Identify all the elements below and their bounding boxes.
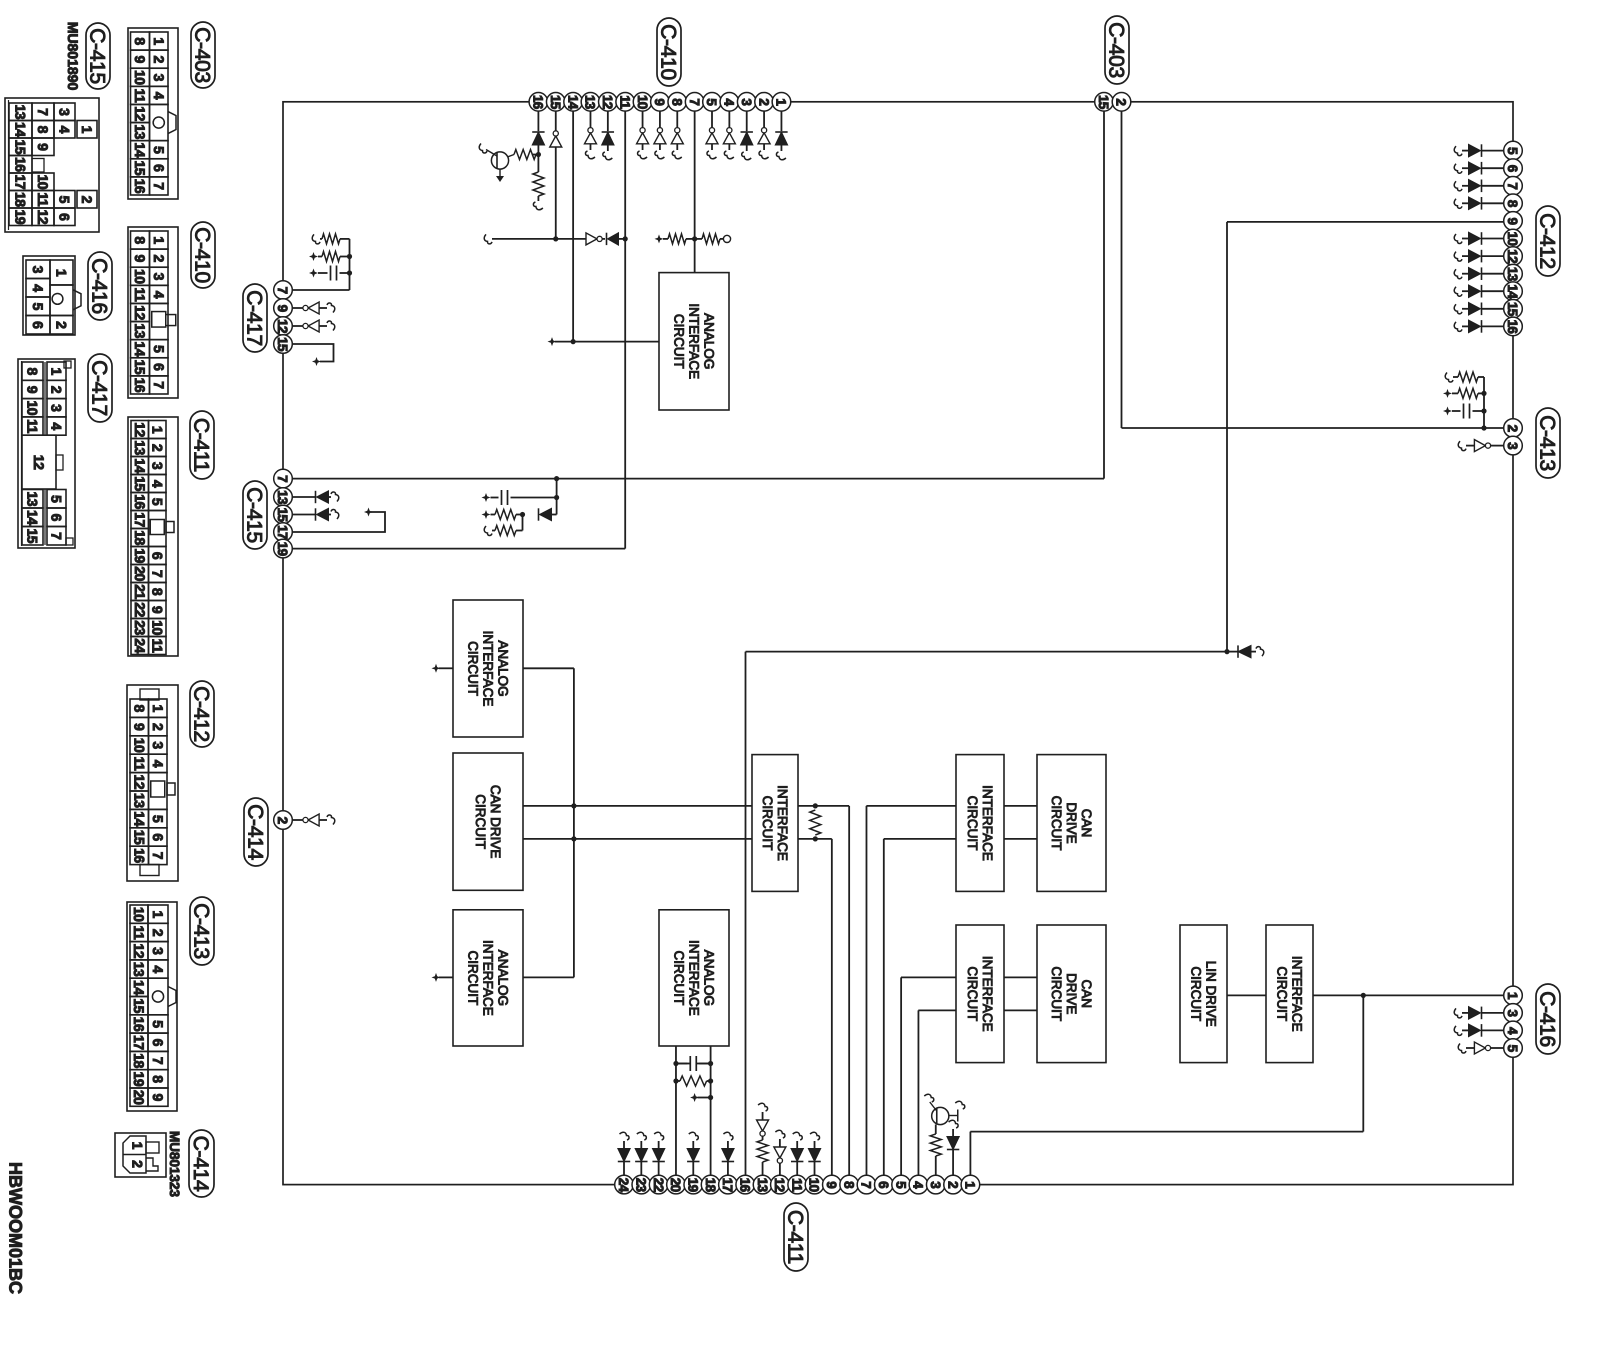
svg-text:2: 2	[1505, 425, 1520, 432]
svg-text:1: 1	[1505, 992, 1520, 1000]
svg-text:6: 6	[49, 514, 65, 522]
svg-text:11: 11	[131, 926, 147, 941]
svg-text:7: 7	[859, 1181, 874, 1188]
svg-text:1: 1	[151, 37, 167, 45]
svg-text:7: 7	[687, 98, 702, 105]
svg-text:3: 3	[57, 108, 73, 116]
svg-text:8: 8	[132, 236, 148, 244]
svg-text:7: 7	[35, 108, 51, 116]
svg-text:4: 4	[30, 284, 46, 292]
svg-text:7: 7	[150, 852, 166, 860]
svg-text:1: 1	[149, 426, 165, 434]
svg-text:C-415: C-415	[86, 28, 109, 84]
svg-text:15: 15	[548, 95, 563, 110]
svg-text:2: 2	[151, 255, 167, 263]
svg-text:18: 18	[131, 1053, 147, 1068]
svg-text:2: 2	[49, 386, 65, 394]
svg-text:3: 3	[739, 98, 754, 106]
svg-text:9: 9	[149, 606, 165, 614]
svg-text:14: 14	[131, 811, 147, 826]
svg-text:6: 6	[150, 833, 166, 841]
svg-text:19: 19	[132, 548, 148, 563]
svg-text:C-417: C-417	[243, 290, 266, 346]
svg-text:10: 10	[132, 269, 148, 284]
svg-text:7: 7	[149, 570, 165, 578]
svg-text:1: 1	[963, 1181, 978, 1189]
svg-text:13: 13	[583, 95, 598, 110]
svg-text:9: 9	[131, 723, 147, 731]
svg-text:2: 2	[54, 321, 70, 329]
svg-text:13: 13	[131, 793, 147, 808]
svg-text:15: 15	[25, 528, 41, 543]
svg-text:7: 7	[151, 381, 167, 389]
svg-text:9: 9	[132, 56, 148, 64]
svg-text:15: 15	[132, 476, 148, 491]
svg-text:3: 3	[30, 266, 46, 274]
svg-text:6: 6	[876, 1181, 891, 1189]
svg-text:3: 3	[1505, 442, 1520, 450]
svg-text:3: 3	[150, 741, 166, 749]
svg-text:12: 12	[35, 209, 51, 224]
svg-text:7: 7	[151, 182, 167, 190]
svg-text:2: 2	[945, 1181, 960, 1188]
svg-text:6: 6	[1505, 165, 1520, 173]
svg-text:5: 5	[1505, 147, 1520, 155]
svg-text:7: 7	[1505, 182, 1520, 189]
svg-text:20: 20	[131, 1090, 147, 1105]
svg-text:C-410: C-410	[191, 227, 214, 283]
svg-text:9: 9	[25, 386, 41, 394]
svg-text:16: 16	[13, 157, 29, 172]
svg-text:15: 15	[132, 161, 148, 176]
svg-text:13: 13	[132, 124, 148, 139]
svg-text:20: 20	[668, 1178, 683, 1192]
svg-text:10: 10	[35, 174, 51, 189]
svg-text:15: 15	[275, 508, 290, 523]
svg-text:C-415: C-415	[243, 487, 266, 543]
svg-text:19: 19	[685, 1178, 700, 1192]
svg-text:INTERFACECIRCUIT: INTERFACECIRCUIT	[965, 956, 995, 1032]
svg-text:2: 2	[79, 196, 95, 204]
svg-text:C-414: C-414	[244, 804, 267, 860]
svg-text:4: 4	[1505, 1027, 1520, 1035]
svg-text:HBWOOM01BC: HBWOOM01BC	[6, 1162, 26, 1294]
svg-text:14: 14	[132, 341, 148, 356]
svg-text:MU801890: MU801890	[65, 22, 81, 91]
svg-text:15: 15	[13, 139, 29, 154]
svg-text:6: 6	[151, 164, 167, 172]
svg-text:13: 13	[13, 104, 29, 119]
svg-text:C-412: C-412	[190, 686, 213, 742]
svg-text:1: 1	[49, 368, 65, 376]
svg-text:14: 14	[132, 458, 148, 473]
svg-text:16: 16	[131, 1017, 147, 1032]
svg-text:C-403: C-403	[1105, 22, 1128, 78]
svg-text:24: 24	[132, 638, 148, 653]
svg-text:4: 4	[49, 422, 65, 430]
svg-text:2: 2	[275, 817, 290, 824]
svg-text:3: 3	[928, 1181, 943, 1189]
svg-text:16: 16	[737, 1178, 752, 1193]
svg-text:23: 23	[132, 620, 148, 635]
svg-text:9: 9	[824, 1181, 839, 1188]
svg-text:10: 10	[131, 738, 147, 753]
svg-text:C-417: C-417	[88, 360, 111, 416]
svg-text:10: 10	[132, 70, 148, 85]
svg-text:3: 3	[151, 74, 167, 82]
svg-text:15: 15	[275, 337, 290, 352]
svg-text:5: 5	[151, 146, 167, 154]
svg-text:6: 6	[149, 552, 165, 560]
svg-text:2: 2	[150, 929, 166, 937]
svg-text:8: 8	[25, 368, 41, 376]
svg-text:3: 3	[1505, 1009, 1520, 1017]
svg-text:6: 6	[57, 213, 73, 221]
svg-text:11: 11	[35, 192, 51, 207]
svg-text:10: 10	[635, 95, 650, 109]
svg-text:4: 4	[151, 291, 167, 299]
svg-text:2: 2	[756, 98, 771, 105]
svg-text:8: 8	[35, 126, 51, 134]
svg-text:12: 12	[772, 1178, 787, 1192]
svg-text:3: 3	[151, 273, 167, 281]
svg-text:11: 11	[149, 639, 165, 654]
svg-text:22: 22	[132, 602, 148, 617]
svg-text:11: 11	[131, 756, 147, 771]
svg-text:7: 7	[49, 532, 65, 540]
svg-text:4: 4	[151, 92, 167, 100]
svg-text:2: 2	[149, 444, 165, 452]
svg-text:10: 10	[807, 1178, 822, 1192]
svg-text:6: 6	[30, 321, 46, 329]
svg-text:18: 18	[132, 530, 148, 545]
svg-text:7: 7	[275, 475, 290, 482]
svg-text:4: 4	[911, 1181, 926, 1189]
svg-text:ANALOGINTERFACECIRCUIT: ANALOGINTERFACECIRCUIT	[671, 940, 716, 1016]
svg-text:5: 5	[30, 303, 46, 311]
svg-text:9: 9	[275, 305, 290, 312]
svg-text:INTERFACECIRCUIT: INTERFACECIRCUIT	[965, 785, 995, 861]
svg-text:14: 14	[13, 122, 29, 137]
svg-text:4: 4	[149, 480, 165, 488]
svg-text:11: 11	[25, 419, 41, 434]
svg-text:13: 13	[1505, 267, 1520, 282]
svg-text:8: 8	[841, 1181, 856, 1189]
svg-text:10: 10	[149, 620, 165, 635]
svg-text:ANALOGINTERFACECIRCUIT: ANALOGINTERFACECIRCUIT	[465, 940, 510, 1016]
svg-text:23: 23	[634, 1178, 649, 1193]
svg-text:C-416: C-416	[88, 258, 111, 314]
svg-text:18: 18	[13, 192, 29, 207]
svg-text:5: 5	[149, 498, 165, 506]
svg-text:5: 5	[893, 1181, 908, 1189]
svg-text:MU801323: MU801323	[167, 1131, 182, 1198]
svg-text:7: 7	[275, 287, 290, 294]
svg-text:11: 11	[132, 88, 148, 103]
svg-text:5: 5	[57, 196, 73, 204]
svg-text:9: 9	[132, 255, 148, 263]
svg-text:10: 10	[25, 400, 41, 415]
svg-text:13: 13	[132, 440, 148, 455]
svg-text:INTERFACECIRCUIT: INTERFACECIRCUIT	[1274, 956, 1304, 1032]
svg-text:16: 16	[132, 179, 148, 194]
svg-text:13: 13	[275, 490, 290, 505]
svg-text:C-403: C-403	[191, 27, 214, 83]
svg-text:9: 9	[1505, 217, 1520, 224]
svg-text:11: 11	[132, 287, 148, 302]
svg-text:9: 9	[35, 143, 51, 151]
svg-text:22: 22	[651, 1178, 666, 1192]
svg-text:15: 15	[131, 830, 147, 845]
svg-text:1: 1	[151, 236, 167, 244]
svg-text:17: 17	[132, 512, 148, 527]
svg-text:4: 4	[150, 760, 166, 768]
svg-text:4: 4	[57, 126, 73, 134]
svg-text:16: 16	[131, 848, 147, 863]
svg-text:2: 2	[1114, 98, 1129, 105]
svg-text:8: 8	[131, 705, 147, 713]
svg-text:13: 13	[755, 1178, 770, 1193]
svg-text:7: 7	[150, 1057, 166, 1065]
svg-text:12: 12	[132, 422, 148, 437]
svg-text:8: 8	[669, 98, 684, 106]
svg-text:1: 1	[130, 1142, 146, 1150]
svg-text:20: 20	[132, 566, 148, 581]
svg-text:12: 12	[275, 319, 290, 333]
svg-text:13: 13	[132, 323, 148, 338]
svg-text:17: 17	[13, 174, 29, 189]
svg-text:16: 16	[132, 378, 148, 393]
svg-text:16: 16	[132, 494, 148, 509]
svg-text:10: 10	[131, 907, 147, 922]
svg-text:ANALOGINTERFACECIRCUIT: ANALOGINTERFACECIRCUIT	[465, 631, 510, 707]
svg-text:C-413: C-413	[190, 903, 213, 959]
svg-text:16: 16	[531, 95, 546, 110]
svg-text:18: 18	[703, 1178, 718, 1193]
svg-text:1: 1	[54, 269, 70, 277]
svg-text:LIN DRIVECIRCUIT: LIN DRIVECIRCUIT	[1188, 961, 1218, 1027]
svg-text:14: 14	[565, 95, 580, 110]
svg-text:12: 12	[1505, 249, 1520, 263]
svg-text:12: 12	[131, 775, 147, 790]
svg-text:C-411: C-411	[190, 418, 213, 472]
svg-text:4: 4	[722, 98, 737, 106]
svg-text:16: 16	[1505, 320, 1520, 335]
svg-text:C-412: C-412	[1536, 213, 1559, 269]
svg-text:6: 6	[150, 1039, 166, 1047]
svg-text:17: 17	[131, 1035, 147, 1050]
svg-text:17: 17	[720, 1178, 735, 1192]
svg-text:9: 9	[150, 1094, 166, 1102]
svg-text:4: 4	[150, 965, 166, 973]
svg-text:19: 19	[131, 1072, 147, 1087]
svg-text:3: 3	[49, 404, 65, 412]
svg-text:1: 1	[79, 126, 95, 134]
svg-text:5: 5	[49, 495, 65, 503]
svg-text:14: 14	[131, 980, 147, 995]
svg-text:8: 8	[149, 588, 165, 596]
svg-text:C-410: C-410	[657, 24, 680, 80]
svg-text:9: 9	[652, 98, 667, 105]
svg-text:5: 5	[1505, 1045, 1520, 1053]
svg-text:5: 5	[150, 815, 166, 823]
svg-text:1: 1	[150, 705, 166, 713]
svg-text:6: 6	[151, 363, 167, 371]
svg-text:11: 11	[789, 1178, 804, 1192]
svg-text:8: 8	[132, 37, 148, 45]
svg-text:15: 15	[132, 360, 148, 375]
svg-text:5: 5	[151, 345, 167, 353]
svg-text:C-413: C-413	[1536, 415, 1559, 471]
svg-text:12: 12	[31, 455, 47, 470]
svg-text:C-411: C-411	[784, 1210, 807, 1264]
svg-text:13: 13	[131, 962, 147, 977]
svg-text:3: 3	[149, 462, 165, 470]
svg-text:12: 12	[600, 95, 615, 109]
svg-text:5: 5	[704, 98, 719, 106]
svg-text:2: 2	[130, 1160, 146, 1168]
svg-text:21: 21	[132, 584, 148, 599]
svg-text:INTERFACECIRCUIT: INTERFACECIRCUIT	[760, 785, 790, 861]
svg-text:C-414: C-414	[189, 1136, 212, 1192]
svg-text:11: 11	[617, 95, 632, 109]
svg-text:2: 2	[151, 56, 167, 64]
svg-text:15: 15	[1505, 302, 1520, 317]
svg-text:15: 15	[1096, 95, 1111, 110]
svg-text:ANALOGINTERFACECIRCUIT: ANALOGINTERFACECIRCUIT	[671, 303, 716, 379]
svg-text:12: 12	[131, 943, 147, 958]
svg-text:19: 19	[275, 542, 290, 556]
svg-text:13: 13	[25, 491, 41, 506]
svg-text:5: 5	[150, 1020, 166, 1028]
svg-text:12: 12	[132, 106, 148, 121]
svg-text:1: 1	[774, 98, 789, 106]
svg-text:14: 14	[25, 510, 41, 525]
svg-text:8: 8	[1505, 200, 1520, 208]
svg-text:12: 12	[132, 305, 148, 320]
svg-text:10: 10	[1505, 232, 1520, 246]
svg-text:8: 8	[150, 1075, 166, 1083]
svg-text:CAN DRIVECIRCUIT: CAN DRIVECIRCUIT	[473, 785, 503, 859]
svg-text:1: 1	[150, 911, 166, 919]
svg-text:17: 17	[275, 525, 290, 539]
svg-text:24: 24	[616, 1178, 631, 1193]
svg-text:14: 14	[132, 142, 148, 157]
svg-text:15: 15	[131, 998, 147, 1013]
svg-text:3: 3	[150, 947, 166, 955]
svg-text:14: 14	[1505, 284, 1520, 299]
svg-text:19: 19	[13, 209, 29, 224]
svg-text:C-416: C-416	[1536, 991, 1559, 1047]
svg-text:2: 2	[150, 723, 166, 731]
